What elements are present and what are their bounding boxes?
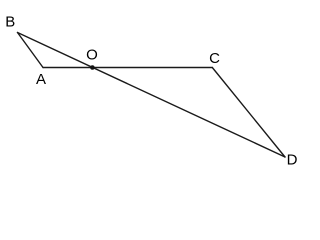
wire segment C-D <box>212 68 285 158</box>
svg-text:O: O <box>86 46 98 63</box>
svg-text:A: A <box>36 71 46 88</box>
wire segment B-D <box>18 33 286 158</box>
svg-text:B: B <box>5 14 15 31</box>
wire segment A-C <box>43 67 212 69</box>
wire segment B-A <box>18 33 44 68</box>
svg-text:C: C <box>209 50 220 67</box>
node O junction dot <box>90 65 95 70</box>
svg-text:D: D <box>287 152 298 169</box>
